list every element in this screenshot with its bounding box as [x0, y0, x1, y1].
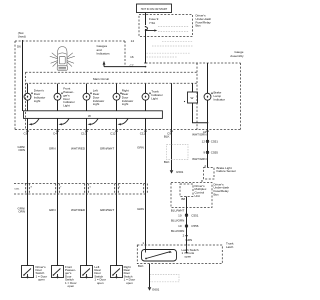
svg-text:Latch: Latch [226, 245, 234, 249]
svg-text:GRN: GRN [49, 147, 56, 151]
svg-text:WHT/RED: WHT/RED [71, 208, 86, 212]
svg-text:BLU/WHT: BLU/WHT [171, 209, 185, 213]
svg-text:10: 10 [178, 213, 182, 217]
svg-text:7.5A: 7.5A [149, 21, 155, 25]
svg-text:GRN: GRN [137, 146, 144, 150]
svg-text:ORN: ORN [18, 148, 25, 152]
svg-text:HOT IN ON OR START: HOT IN ON OR START [141, 7, 168, 11]
svg-text:BLK: BLK [164, 134, 170, 138]
svg-text:BLU/ORN: BLU/ORN [171, 229, 184, 233]
svg-text:open: open [38, 278, 45, 282]
svg-text:GRN: GRN [137, 207, 144, 211]
svg-text:Assembly: Assembly [230, 54, 244, 58]
svg-text:W: W [191, 96, 194, 100]
svg-text:D6: D6 [17, 45, 21, 49]
svg-text:Main Circuit: Main Circuit [93, 77, 109, 81]
svg-text:C6: C6 [24, 131, 28, 135]
svg-text:Light: Light [151, 97, 158, 101]
svg-text:GRN/WHT: GRN/WHT [100, 208, 114, 212]
svg-text:BLK: BLK [138, 264, 144, 268]
svg-text:10: 10 [178, 224, 182, 228]
svg-text:open: open [185, 255, 192, 259]
svg-text:open: open [68, 284, 75, 288]
svg-text:C11: C11 [140, 131, 146, 135]
svg-text:GRN/WHT: GRN/WHT [100, 147, 114, 151]
svg-text:Unit: Unit [195, 194, 201, 198]
svg-text:12: 12 [202, 140, 206, 144]
svg-text:open: open [97, 281, 104, 285]
svg-text:G601: G601 [152, 287, 160, 291]
svg-text:Box: Box [196, 24, 202, 28]
svg-text:BLK: BLK [164, 160, 170, 164]
svg-text:Failure Sensor: Failure Sensor [217, 169, 237, 173]
svg-text:WHT/GRN: WHT/GRN [192, 133, 206, 137]
svg-text:B8: B8 [181, 197, 185, 201]
svg-text:Indicator: Indicator [214, 98, 226, 102]
svg-text:C4: C4 [53, 131, 57, 135]
svg-text:Light: Light [93, 102, 100, 106]
svg-text:Box: Box [214, 193, 220, 197]
svg-text:14: 14 [131, 39, 135, 43]
svg-text:Light: Light [63, 104, 70, 108]
svg-text:C12: C12 [110, 131, 116, 135]
svg-text:Light: Light [122, 102, 129, 106]
svg-text:BLU/ORN: BLU/ORN [171, 218, 184, 222]
svg-text:ORN: ORN [18, 210, 25, 214]
svg-text:C10: C10 [81, 131, 87, 135]
svg-text:WHT/RED: WHT/RED [71, 147, 86, 151]
svg-text:GRN: GRN [49, 208, 56, 212]
svg-text:C551: C551 [191, 213, 199, 217]
svg-text:open: open [126, 281, 133, 285]
svg-text:C551: C551 [211, 140, 219, 144]
svg-text:WHT/GRN: WHT/GRN [192, 157, 206, 161]
svg-text:C551: C551 [14, 189, 20, 191]
svg-text:G501: G501 [176, 170, 184, 174]
svg-text:Light: Light [34, 99, 41, 103]
svg-text:C555: C555 [211, 151, 219, 155]
svg-text:Used): Used) [18, 34, 26, 38]
svg-text:C556: C556 [191, 224, 199, 228]
svg-text:Indicators: Indicators [97, 52, 111, 56]
svg-text:W: W [88, 114, 91, 118]
svg-text:16: 16 [130, 55, 134, 59]
svg-text:GRN: GRN [186, 238, 193, 242]
